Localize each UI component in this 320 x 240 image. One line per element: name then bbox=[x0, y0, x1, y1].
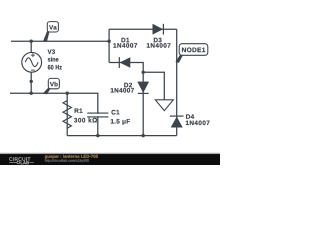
wire R1 branch bbox=[66, 93, 68, 135]
junction dot D1-D2 node bbox=[142, 71, 145, 74]
wire Va rail bbox=[11, 40, 109, 42]
label D1 value bbox=[113, 43, 137, 48]
junction dot node Va at V3 top bbox=[30, 40, 33, 43]
watermark url bbox=[45, 159, 89, 162]
label D3 value bbox=[147, 43, 171, 48]
node flag NODE1 bbox=[175, 44, 207, 63]
wire D1 row and D2 branch bbox=[109, 63, 143, 136]
junction dot D2 bottom bbox=[142, 134, 145, 137]
wire top rail bbox=[109, 28, 177, 30]
label V3 freq bbox=[48, 65, 62, 70]
junction dot V3 bottom terminal bbox=[30, 80, 33, 83]
watermark bar bbox=[0, 152, 220, 165]
label flag Vb text bbox=[50, 82, 58, 87]
wire V3 branch bottom bbox=[30, 72, 32, 93]
watermark logo CIRCUIT bbox=[9, 157, 30, 161]
label V3 name bbox=[48, 49, 55, 54]
label R1 name bbox=[75, 109, 83, 113]
watermark logo dot bbox=[17, 161, 20, 164]
wire junction row to ground bbox=[143, 72, 164, 100]
label D4 name bbox=[186, 114, 194, 118]
label D3 name bbox=[154, 38, 162, 43]
label D4 value bbox=[186, 121, 210, 126]
diode D2 bbox=[138, 82, 149, 94]
watermark logo LAB bbox=[21, 161, 29, 164]
ground bbox=[155, 100, 173, 111]
capacitor C1 bbox=[87, 113, 108, 117]
node flag Va bbox=[43, 22, 59, 42]
junction dot node Vb at R1 top bbox=[66, 92, 69, 95]
diode D3 bbox=[153, 24, 164, 35]
wire right vertical rail bbox=[176, 29, 178, 135]
resistor R1 bbox=[63, 101, 71, 129]
label D2 name bbox=[124, 83, 132, 88]
label V3 type bbox=[48, 57, 59, 62]
label D2 value bbox=[111, 88, 134, 93]
wire Vb rail and C1 branch bbox=[10, 93, 98, 135]
wire V3 branch top bbox=[30, 41, 32, 52]
label C1 value bbox=[111, 119, 130, 125]
junction dot node Va at riser bbox=[107, 40, 110, 43]
wire bottom rail bbox=[67, 135, 177, 137]
label D1 name bbox=[122, 38, 130, 42]
wire left vertical riser bbox=[108, 29, 110, 62]
diode D4 bbox=[170, 116, 184, 127]
junction dot C1 bottom bbox=[96, 134, 99, 137]
label flag NODE1 text bbox=[182, 48, 205, 53]
diode D1 bbox=[119, 57, 130, 68]
label C1 name bbox=[112, 110, 120, 115]
watermark logo rules bbox=[9, 162, 34, 164]
junction dot node Vb at V3 branch bbox=[30, 92, 33, 95]
voltage source V3 bbox=[22, 52, 42, 72]
node flag Vb bbox=[43, 78, 60, 94]
label R1 value bbox=[74, 118, 97, 123]
label flag Va text bbox=[49, 25, 57, 29]
watermark title bbox=[45, 155, 98, 159]
